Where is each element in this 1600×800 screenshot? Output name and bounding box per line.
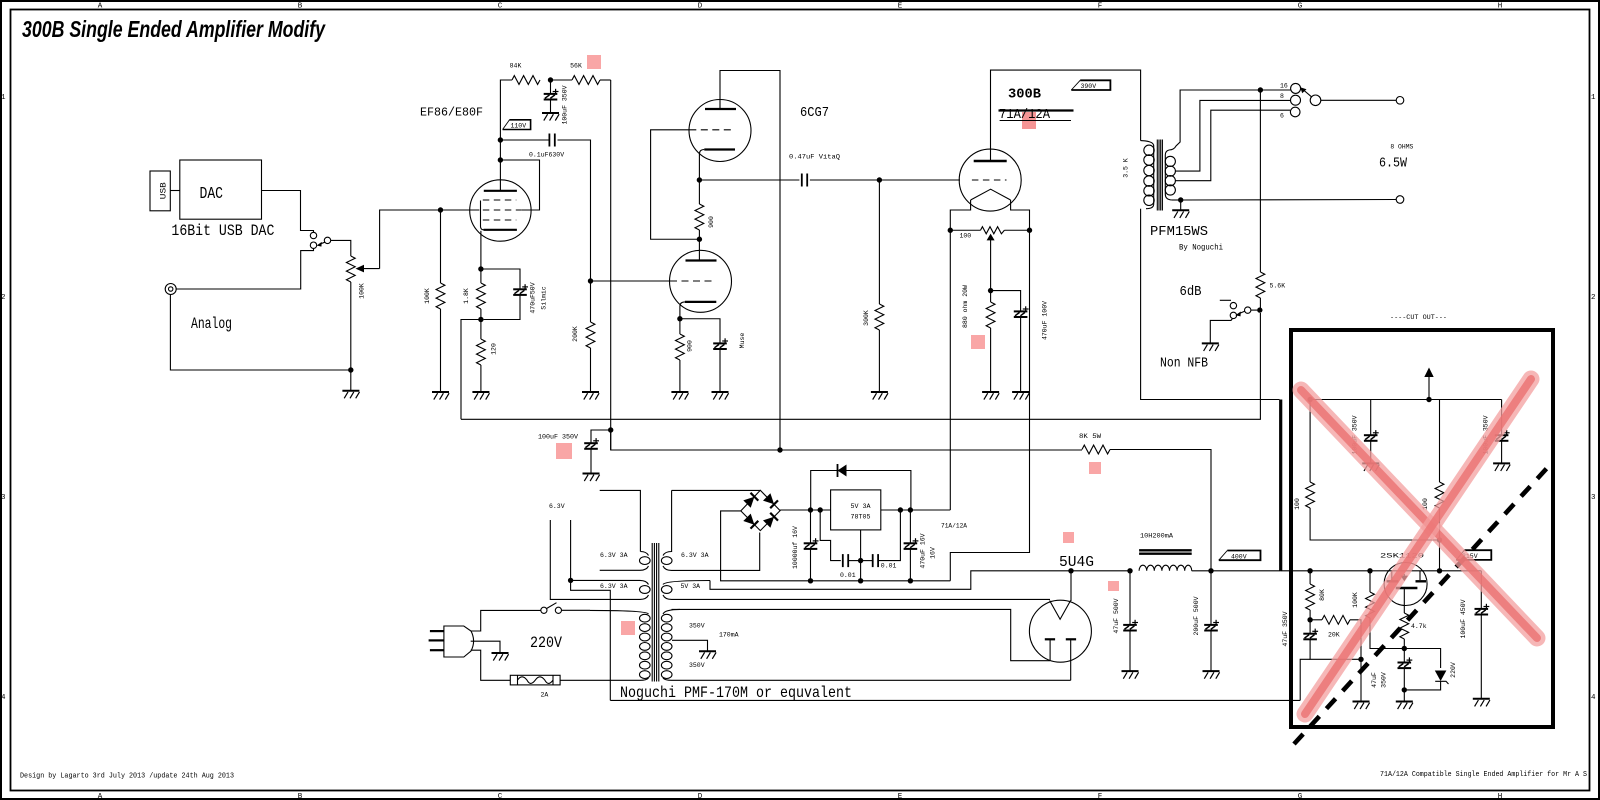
node 6CG7 upper cathode <box>697 177 702 182</box>
ground mains earth <box>492 653 509 661</box>
capacitor 0.01 left <box>843 554 848 567</box>
wire 200K to ground <box>590 348 592 392</box>
DAC box <box>180 160 262 219</box>
ground Muse <box>712 392 729 400</box>
svg-text:6.3V 3A: 6.3V 3A <box>681 552 709 559</box>
hum pot wiper arrow <box>987 234 995 241</box>
left winding loops <box>640 552 651 600</box>
wire fuse to primary bottom <box>560 679 610 681</box>
300B grid dashes <box>972 179 1007 181</box>
wire screen feed <box>500 160 539 210</box>
node heater stub 2 <box>568 578 573 583</box>
node 10000uF tap <box>808 507 813 512</box>
node EF86 anode <box>498 137 503 142</box>
bridge rectifier diamond <box>741 490 780 530</box>
svg-text:900: 900 <box>687 340 694 352</box>
resistor 900 upper cathode <box>698 180 700 204</box>
resistor 1.8K cathode <box>480 269 482 283</box>
wire wiper to EF86 grid line <box>380 210 441 269</box>
node 400V <box>1208 568 1213 573</box>
svg-text:EF86/E80F: EF86/E80F <box>420 106 483 120</box>
wire regulator ground to rail <box>860 561 862 581</box>
wire 16 tap down to 5.6K <box>1259 90 1261 272</box>
svg-text:D: D <box>698 793 703 800</box>
wire 100K to ground <box>440 309 442 392</box>
ground box cap right <box>1493 463 1510 471</box>
B+ arrow inside box <box>1424 368 1433 378</box>
svg-text:4.7k: 4.7k <box>1411 623 1427 630</box>
svg-text:47uF: 47uF <box>1371 672 1378 688</box>
border row numbers <box>1 94 1596 702</box>
resistor 300K grid leak <box>875 304 884 330</box>
wire USB to DAC <box>170 190 180 192</box>
svg-text:5U4G: 5U4G <box>1059 554 1094 571</box>
5U4G right plate <box>1066 638 1076 640</box>
svg-text:6CG7: 6CG7 <box>800 105 829 121</box>
ground 100uF 450V <box>1473 699 1490 707</box>
node 16 tap to NFB divider <box>1258 87 1263 92</box>
wire heater winding 1 top from EF86 area <box>600 490 641 551</box>
red cross stroke A <box>1301 390 1537 638</box>
wire lower contact to ground <box>1210 319 1232 343</box>
svg-text:400V: 400V <box>1231 553 1247 560</box>
node 100s output <box>1437 537 1442 542</box>
svg-text:D: D <box>698 3 703 11</box>
selector lever with arrow <box>1304 90 1312 97</box>
resistor 5.6K NFB <box>1256 272 1265 298</box>
ground NFB switch <box>1202 343 1219 351</box>
svg-text:350V: 350V <box>1381 672 1388 688</box>
EF86 grid3 dashes <box>483 199 517 201</box>
tap circle 6 <box>1290 107 1300 117</box>
wire 5V top jog to 5U4G B plus <box>710 571 1130 590</box>
2SK1120 source lead <box>1403 588 1405 613</box>
svg-text:By Noguchi: By Noguchi <box>1179 243 1223 253</box>
svg-text:6.3V 3A: 6.3V 3A <box>600 583 628 590</box>
output jack return <box>1396 196 1404 204</box>
6CG7 lower plate lead <box>698 239 700 260</box>
svg-text:350V: 350V <box>689 622 705 629</box>
svg-text:F: F <box>1098 793 1103 800</box>
secondary loops <box>1165 156 1175 195</box>
svg-text:DAC: DAC <box>200 185 224 204</box>
transformer core <box>1157 140 1162 211</box>
svg-text:2A: 2A <box>541 692 549 699</box>
resistor 100 box left <box>1309 400 1311 483</box>
svg-text:4: 4 <box>1591 694 1596 702</box>
right 6.3V winding to bridge <box>663 490 672 555</box>
wire plug earth to ground <box>471 641 500 652</box>
plug prongs <box>429 631 444 650</box>
node cathode bottom <box>478 317 483 322</box>
primary 220V winding rail and loops <box>590 610 649 614</box>
svg-text:C: C <box>498 793 503 800</box>
input selector common contact <box>324 237 330 243</box>
svg-text:1: 1 <box>1 94 6 102</box>
wire common contact to pot top <box>331 240 351 256</box>
svg-text:Muse: Muse <box>739 333 746 349</box>
300B plate bar <box>974 160 1007 162</box>
wire coupling cap to 6CG7 grid drop <box>558 140 591 281</box>
wire NFB line <box>461 313 1260 419</box>
svg-text:80K: 80K <box>1319 589 1326 601</box>
node hum pot left <box>948 228 953 233</box>
svg-text:84K: 84K <box>510 63 522 70</box>
tube 6CG7 upper triode envelope <box>689 100 751 162</box>
svg-text:A: A <box>98 793 103 800</box>
cut-out box border <box>1291 330 1553 727</box>
node 100K top <box>1367 568 1372 573</box>
svg-text:6dB: 6dB <box>1180 284 1202 300</box>
svg-text:16V: 16V <box>930 547 937 559</box>
300B plate lead to primary <box>991 70 1141 161</box>
capacitor 100uF 350V box left <box>1370 400 1372 436</box>
ground secondary <box>1180 200 1182 210</box>
svg-text:5V 3A: 5V 3A <box>681 583 701 590</box>
capacitor 470uF 100V bypass <box>991 291 1021 312</box>
wire 400V into cut-out box <box>1281 570 1310 572</box>
wire filament right to B+ node <box>1070 571 1072 601</box>
wire DAC output to selector upper contact <box>262 191 314 233</box>
capacitor 0.47uF VitaQ <box>802 174 807 187</box>
node 10000uF ground <box>808 578 813 583</box>
tube 6CG7 lower triode envelope <box>670 250 732 312</box>
svg-text:71A/12A: 71A/12A <box>941 523 967 530</box>
wire RCA shell to ground bus <box>170 295 350 371</box>
svg-text:G: G <box>1298 793 1303 800</box>
svg-text:100K: 100K <box>359 283 366 299</box>
wire 6.3V heater stub 1 <box>550 520 640 599</box>
wire grid node to 6CG7 <box>591 280 671 282</box>
tube EF86 envelope <box>470 180 531 241</box>
svg-text:Analog: Analog <box>191 315 232 333</box>
NFB switch lever <box>1239 311 1245 313</box>
wire filament left leg to 5V regulator <box>949 230 951 510</box>
ground 300K <box>871 392 888 400</box>
node source network <box>1402 646 1407 651</box>
capacitor 0.1uF630V coupling <box>549 134 554 147</box>
capacitor 47uF 500V <box>1129 571 1131 625</box>
svg-text:0.01: 0.01 <box>881 563 897 570</box>
wire bridge DC minus <box>721 511 951 581</box>
svg-text:880 ohm 20W: 880 ohm 20W <box>962 285 969 328</box>
ground source bypass <box>1396 702 1413 710</box>
wire B+ rail EF86 vertical <box>610 80 612 450</box>
wire anode to coupling cap <box>500 139 549 141</box>
EF86 plate lead and B+ vertical <box>500 80 512 191</box>
5U4G left plate <box>1045 638 1055 640</box>
300B filament V <box>971 189 1011 200</box>
regulator 78T05 box <box>831 490 881 530</box>
tap circle 16 <box>1291 83 1301 93</box>
wire plug live to switch <box>471 610 541 631</box>
node 80K bottom <box>1307 617 1312 622</box>
svg-text:220V: 220V <box>1450 662 1457 678</box>
wire junction to 56K <box>551 79 573 81</box>
ground 100uF 350V <box>542 113 559 121</box>
node 6CG7 grid <box>588 278 593 283</box>
capacitor 100uF 350V box right <box>1501 400 1503 436</box>
flag 390V <box>1071 80 1110 90</box>
svg-text:56K: 56K <box>570 63 582 70</box>
node EF86 grid input <box>438 207 443 212</box>
wire centre tap to ground <box>672 640 708 650</box>
svg-text:470uF50V: 470uF50V <box>530 282 537 313</box>
bridge diode D1 <box>743 497 754 508</box>
tap circle 8 <box>1291 95 1301 105</box>
node box rail left <box>1307 397 1312 402</box>
ground 200K <box>582 392 599 400</box>
6CG7 lower grid dashes <box>670 280 715 282</box>
resistor 4.7k source <box>1400 613 1409 639</box>
capacitor 47uF 350V left (outside label) <box>1309 620 1311 634</box>
svg-text:71A/12A Compatible Single Ende: 71A/12A Compatible Single Ended Amplifie… <box>1380 771 1587 779</box>
2SK1120 gate arrow <box>1403 574 1405 577</box>
primary loops <box>1144 145 1154 205</box>
svg-text:2: 2 <box>1591 294 1596 302</box>
resistor 8K 5W dropper <box>1082 445 1110 454</box>
capacitor 470uF50V Silmic bypass <box>481 269 520 289</box>
wire node down to 300K <box>878 180 880 304</box>
wire bridge DC plus to regulator <box>780 509 831 511</box>
6CG7 upper grid return wire <box>651 130 700 239</box>
svg-text:100: 100 <box>1294 498 1301 510</box>
svg-text:----CUT OUT---: ----CUT OUT--- <box>1390 314 1447 321</box>
wire grid node to 300B <box>879 179 960 181</box>
svg-text:C: C <box>498 3 503 11</box>
svg-text:USB: USB <box>159 182 169 199</box>
svg-text:0.01: 0.01 <box>840 572 856 579</box>
svg-text:3: 3 <box>1 494 6 502</box>
EF86 plate bar <box>484 190 517 192</box>
wire switch to primary <box>562 609 591 611</box>
svg-text:200K: 200K <box>572 326 579 342</box>
wire lower contact to Analog line <box>176 248 313 289</box>
350V secondary loops <box>663 609 680 614</box>
wire 0.01 input branch <box>820 510 841 561</box>
svg-text:470uF 16V: 470uF 16V <box>920 533 927 568</box>
svg-text:16: 16 <box>1280 83 1288 90</box>
node 6CG7 B+ tap <box>777 447 782 452</box>
wire 20K right end down to ground <box>1350 620 1361 660</box>
capacitor 100uF 350V main filter <box>591 430 611 443</box>
flag 215V <box>1456 550 1491 560</box>
wire selector to jack <box>1321 99 1397 101</box>
wire 8 ohm tap <box>1175 100 1290 171</box>
svg-text:1.8K: 1.8K <box>463 288 470 304</box>
wire 16 ohm tap <box>1169 90 1291 150</box>
diode protection over regulator <box>811 471 911 511</box>
wire 6 ohm tap <box>1175 110 1290 181</box>
zener 220V <box>1404 649 1440 669</box>
svg-text:6.3V 3A: 6.3V 3A <box>600 552 628 559</box>
ground 200uF 500V <box>1203 671 1220 679</box>
wire 900 to ground <box>679 360 681 392</box>
2SK1120 drain stubs and bars <box>1391 571 1393 580</box>
svg-text:300B Single Ended Amplifier Mo: 300B Single Ended Amplifier Modify <box>22 16 326 42</box>
svg-text:8 OHMS: 8 OHMS <box>1390 143 1413 150</box>
svg-text:10000uf 16V: 10000uf 16V <box>792 526 799 569</box>
wire secondary return <box>1172 199 1181 201</box>
wire 880 to ground <box>990 328 992 392</box>
300B filament right leg <box>1011 200 1030 230</box>
NFB switch upper contact with stub <box>1230 302 1236 308</box>
capacitor 10000uf 16V <box>810 510 812 543</box>
capacitor 100uF 450V output <box>1480 571 1482 609</box>
svg-text:100: 100 <box>960 233 972 240</box>
node B+ cap tap <box>608 427 613 432</box>
transistor 2SK1120 envelope <box>1384 563 1427 606</box>
svg-text:100K: 100K <box>424 288 431 304</box>
tube 5U4G envelope <box>1029 600 1091 662</box>
svg-text:900: 900 <box>708 216 715 228</box>
svg-text:Noguchi PMF-170M or equvalent: Noguchi PMF-170M or equvalent <box>620 684 852 702</box>
svg-text:0.1uF630V: 0.1uF630V <box>529 152 564 159</box>
wire bridge AC top from 6.3V <box>672 489 761 491</box>
red cross stroke B <box>1305 379 1531 714</box>
dashed cut line <box>1294 467 1548 744</box>
ground 120 <box>472 392 489 400</box>
svg-text:B: B <box>298 793 303 800</box>
node NFB switch <box>1257 307 1262 312</box>
svg-text:3.5 K: 3.5 K <box>1123 158 1130 178</box>
wire old B+ line to cut-out box <box>610 699 1300 701</box>
node 84K/56K junction <box>548 77 553 82</box>
wire 100 left to output node <box>1310 508 1439 540</box>
selector rotor circle <box>1310 95 1321 106</box>
svg-text:20K: 20K <box>1328 632 1340 639</box>
svg-text:2: 2 <box>1 294 6 302</box>
NFB switch lower contact <box>1230 312 1236 318</box>
resistor 80K <box>1309 571 1311 584</box>
svg-text:3: 3 <box>1591 494 1596 502</box>
wire 300K to ground <box>878 330 880 392</box>
wire 120 to ground <box>480 365 482 392</box>
300B filament left leg <box>950 200 970 230</box>
ground 880 <box>982 392 999 400</box>
svg-text:47uF 350V: 47uF 350V <box>1282 611 1289 646</box>
svg-text:6.5W: 6.5W <box>1379 156 1407 172</box>
svg-text:300K: 300K <box>863 310 870 326</box>
5U4G filament V <box>1050 601 1071 620</box>
svg-text:G: G <box>1298 3 1303 11</box>
EF86 cathode bar <box>484 229 517 231</box>
NFB switch common <box>1245 307 1251 313</box>
svg-text:120: 120 <box>491 343 498 355</box>
svg-text:390V: 390V <box>1081 83 1097 90</box>
ground 470uF 100V <box>1012 392 1029 400</box>
wire grid node down to 100K <box>440 210 442 283</box>
EF86 grid2 dashes <box>483 209 522 211</box>
node hum pot right <box>1027 228 1032 233</box>
node zener return <box>1402 687 1407 692</box>
EF86 g3-cathode tie bracket <box>481 201 485 230</box>
svg-text:5V 3A: 5V 3A <box>851 503 871 510</box>
6CG7 lower plate bar <box>686 259 717 261</box>
6CG7 upper cathode hook and lead <box>699 150 704 181</box>
wire 8K to 400V node <box>1110 450 1211 571</box>
svg-text:A: A <box>98 3 103 11</box>
wire 900 bottom to node <box>698 230 700 239</box>
svg-text:E: E <box>898 3 903 11</box>
node 300B grid <box>877 177 882 182</box>
2SK1120 source bar <box>1396 587 1418 589</box>
svg-text:8K 5W: 8K 5W <box>1079 433 1101 440</box>
pot wiper arrow <box>356 265 365 273</box>
wire filament right leg to DC minus <box>950 230 1029 581</box>
svg-text:6.3V: 6.3V <box>549 503 565 510</box>
6CG7 upper plate lead to B+ <box>720 71 780 451</box>
350V secondary top <box>672 609 1051 660</box>
svg-text:100uF 450V: 100uF 450V <box>1460 599 1467 638</box>
hum pot 100 ohm <box>950 229 980 231</box>
wire old B+ entry riser <box>1300 659 1310 700</box>
svg-text:0.47uF VitaQ: 0.47uF VitaQ <box>789 154 840 161</box>
wire 215V line in box <box>1310 570 1481 572</box>
wire regulator output to filament <box>881 509 951 511</box>
border column letters top <box>98 3 1503 11</box>
svg-text:350V: 350V <box>689 662 705 669</box>
ground 20K <box>1353 702 1370 710</box>
primary winding rail <box>1141 141 1154 209</box>
svg-text:E: E <box>898 793 903 800</box>
svg-text:F: F <box>1098 3 1103 11</box>
plug body <box>444 626 474 657</box>
node arrow to rail <box>1426 397 1431 402</box>
tube 300B envelope <box>959 149 1021 211</box>
wire 0.47uF to 300B grid node <box>810 179 880 181</box>
node 0.01 tap input <box>818 507 823 512</box>
node secondary ground <box>1178 197 1183 202</box>
svg-text:78T05: 78T05 <box>851 514 871 521</box>
wire plug neutral to fuse <box>471 650 511 680</box>
wire choke to 400V line <box>1192 570 1281 572</box>
svg-text:220V: 220V <box>530 634 562 652</box>
svg-text:10H200mA: 10H200mA <box>1140 533 1173 540</box>
regulator ground leg <box>860 530 862 561</box>
capacitor Muse bypass <box>680 319 720 344</box>
resistor 880 ohm 20W <box>990 291 992 302</box>
wire upper cathode to 0.47uF <box>699 179 799 181</box>
output jack hot <box>1396 97 1404 105</box>
border column letters bottom <box>98 793 1503 800</box>
ground centre tap <box>699 651 716 659</box>
node filament bias <box>988 288 993 293</box>
capacitor 0.01 right <box>861 560 873 562</box>
ground 900 lower <box>671 392 688 400</box>
ground 100uF 350V main <box>583 474 600 482</box>
capacitor 200uF 500V <box>1210 571 1212 625</box>
6CG7 upper grid dashes <box>689 129 735 131</box>
resistor 100 box right <box>1439 400 1441 483</box>
node 470uF tap <box>908 507 913 512</box>
wire B+ rail horizontal <box>611 430 1082 450</box>
wire stub2 branch down <box>571 580 611 700</box>
svg-text:110V: 110V <box>511 123 527 130</box>
transformer core PMF <box>652 543 659 682</box>
mains switch <box>541 607 547 613</box>
wire output node down to 215V line <box>1439 508 1441 571</box>
node direct coupling <box>697 237 702 242</box>
node reg output <box>898 507 903 512</box>
capacitor 470uF 16V <box>909 510 911 543</box>
node 0.01 centre <box>858 558 863 563</box>
svg-text:470uF 100V: 470uF 100V <box>1042 301 1049 340</box>
wire stub2 to winding top <box>571 579 640 581</box>
wire heater winding 1 bottom <box>600 569 640 571</box>
svg-text:300B: 300B <box>1008 87 1042 103</box>
5V winding <box>663 581 710 585</box>
